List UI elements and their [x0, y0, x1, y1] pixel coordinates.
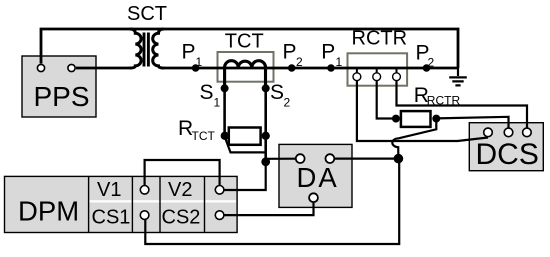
DPM box [5, 176, 238, 232]
resistor R_TCT [229, 128, 261, 145]
transformer SCT left winding [130, 29, 142, 68]
svg-text:CS2: CS2 [162, 207, 201, 229]
R_TCT left terminal dot [221, 132, 229, 140]
svg-text:TCT: TCT [192, 129, 216, 143]
RCTR terminal 2 [373, 73, 381, 81]
svg-text:1: 1 [196, 55, 203, 69]
DA terminal in1 [296, 154, 305, 163]
node P1 dot [192, 64, 200, 72]
RCTR terminal stubs [357, 68, 397, 73]
wire junction A down and left to V2 terminal [224, 162, 265, 190]
wire R_RCTR right to DCS input 2 [436, 117, 508, 128]
svg-text:2: 2 [428, 56, 435, 70]
junction B dot [394, 154, 404, 164]
wire R_RCTR right to junction B with crossing hop [392, 120, 436, 159]
svg-text:DPM: DPM [18, 196, 79, 227]
svg-text:SCT: SCT [127, 3, 167, 25]
svg-text:1: 1 [214, 96, 221, 110]
R_TCT right terminal dot [262, 132, 270, 140]
svg-text:S: S [200, 81, 214, 104]
PPS box [22, 56, 96, 117]
wire RCTR terminal 2 to R_RCTR left [377, 81, 396, 119]
DCS terminal 2 [504, 128, 513, 137]
svg-text:CS1: CS1 [92, 207, 131, 229]
wire PPS right terminal to transformer [76, 67, 132, 70]
DPM terminal CS1 [140, 211, 149, 220]
transformer core [144, 33, 148, 67]
node P2 dot [288, 64, 296, 72]
R_RCTR right terminal dot [432, 115, 440, 123]
PPS terminal 2 [68, 64, 75, 71]
svg-text:RCTR: RCTR [352, 27, 408, 49]
DA box [279, 144, 352, 207]
svg-text:1: 1 [336, 55, 343, 69]
svg-text:P: P [321, 41, 335, 64]
DPM white row divider [90, 200, 237, 202]
DA terminal out [309, 193, 318, 202]
svg-text:RCTR: RCTR [427, 93, 461, 107]
wire DA input 2 to junction B [335, 158, 398, 160]
DPM terminal V1 [140, 186, 149, 195]
wire junction A to DA input 1 [266, 158, 296, 160]
DPM column dividers [89, 176, 205, 232]
TCT box [218, 52, 274, 82]
wire top loop from PPS left terminal to right corner [41, 29, 458, 68]
svg-text:P: P [283, 41, 297, 64]
R_RCTR left terminal dot [392, 115, 400, 123]
node P1 RCTR dot [327, 64, 335, 72]
DPM terminal V2 [215, 186, 224, 195]
RCTR terminal 3 [393, 73, 401, 81]
junction A dot [261, 157, 270, 166]
RCTR box [348, 53, 408, 85]
PPS terminal 1 [37, 64, 44, 71]
wire RCTR terminal 1 to DCS input 1 [357, 81, 488, 141]
svg-text:PPS: PPS [34, 81, 90, 112]
wire V1 terminal up over to V2 terminal [145, 160, 220, 185]
node P2 RCTR dot [423, 64, 431, 72]
DPM terminal CS2 [215, 211, 224, 220]
wire CS1 terminal down right and up to junction B [145, 159, 399, 244]
svg-text:V2: V2 [168, 179, 192, 201]
RCTR terminal 1 [353, 73, 361, 81]
svg-text:V1: V1 [97, 179, 121, 201]
DCS box [469, 123, 543, 171]
ground [449, 68, 467, 85]
node S2 dot [262, 84, 270, 92]
DA terminal in2 [326, 154, 335, 163]
node S1 dot [221, 84, 229, 92]
DCS terminal 3 [523, 128, 532, 137]
wire S1 down to R_TCT left [223, 88, 226, 136]
svg-text:TCT: TCT [225, 31, 264, 53]
svg-text:2: 2 [296, 55, 303, 69]
DCS terminal 1 [484, 128, 493, 137]
svg-text:DA: DA [297, 162, 339, 193]
svg-text:DCS: DCS [476, 138, 539, 171]
wire RCTR terminal 3 to DCS input 3 [397, 81, 528, 128]
TCT secondary winding [225, 61, 266, 89]
svg-text:S: S [270, 81, 284, 104]
wire S2 down through R_TCT right to junction A [264, 88, 267, 162]
svg-text:2: 2 [284, 96, 291, 110]
wire R_TCT left sense diagonal to S2 vertical [225, 138, 266, 153]
resistor R_RCTR [401, 111, 431, 127]
svg-text:P: P [182, 41, 196, 64]
wire main primary line [161, 67, 458, 70]
wire DA bottom terminal to CS2 terminal [225, 203, 314, 216]
transformer SCT right winding [153, 29, 164, 68]
